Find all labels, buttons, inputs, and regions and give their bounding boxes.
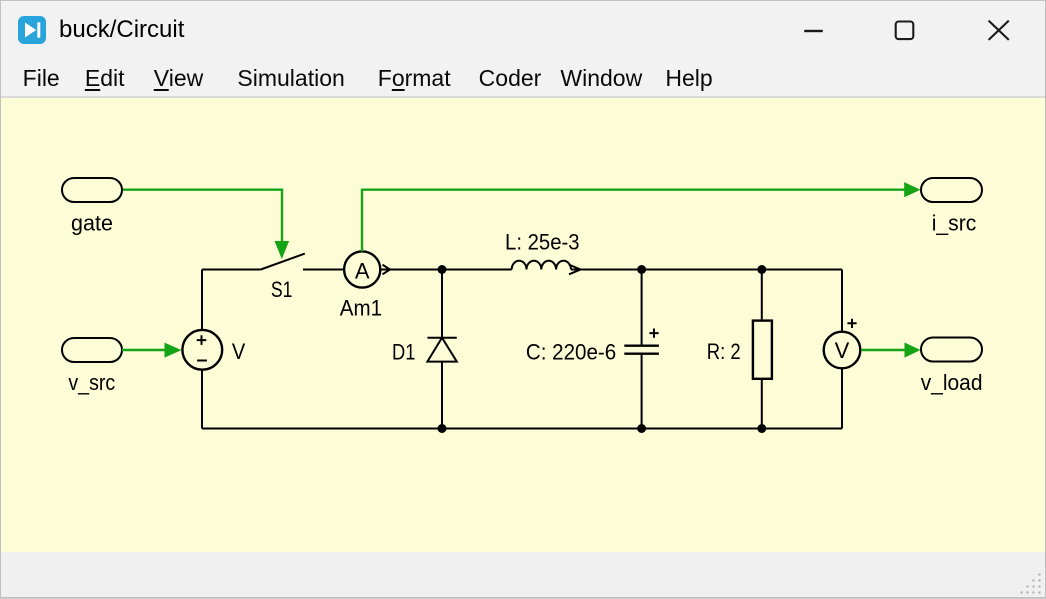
svg-text:gate: gate bbox=[71, 211, 113, 236]
svg-text:R: 2: R: 2 bbox=[707, 339, 741, 364]
svg-text:D1: D1 bbox=[392, 339, 415, 364]
svg-text:Am1: Am1 bbox=[340, 296, 382, 321]
svg-text:V: V bbox=[835, 338, 850, 363]
svg-text:A: A bbox=[355, 258, 370, 283]
svg-text:S1: S1 bbox=[271, 277, 293, 302]
svg-text:V: V bbox=[232, 339, 246, 364]
svg-text:v_load: v_load bbox=[921, 370, 983, 395]
svg-text:L: 25e-3: L: 25e-3 bbox=[505, 230, 580, 255]
svg-text:v_src: v_src bbox=[68, 370, 115, 395]
svg-text:i_src: i_src bbox=[932, 210, 977, 235]
svg-text:C: 220e-6: C: 220e-6 bbox=[526, 340, 616, 365]
